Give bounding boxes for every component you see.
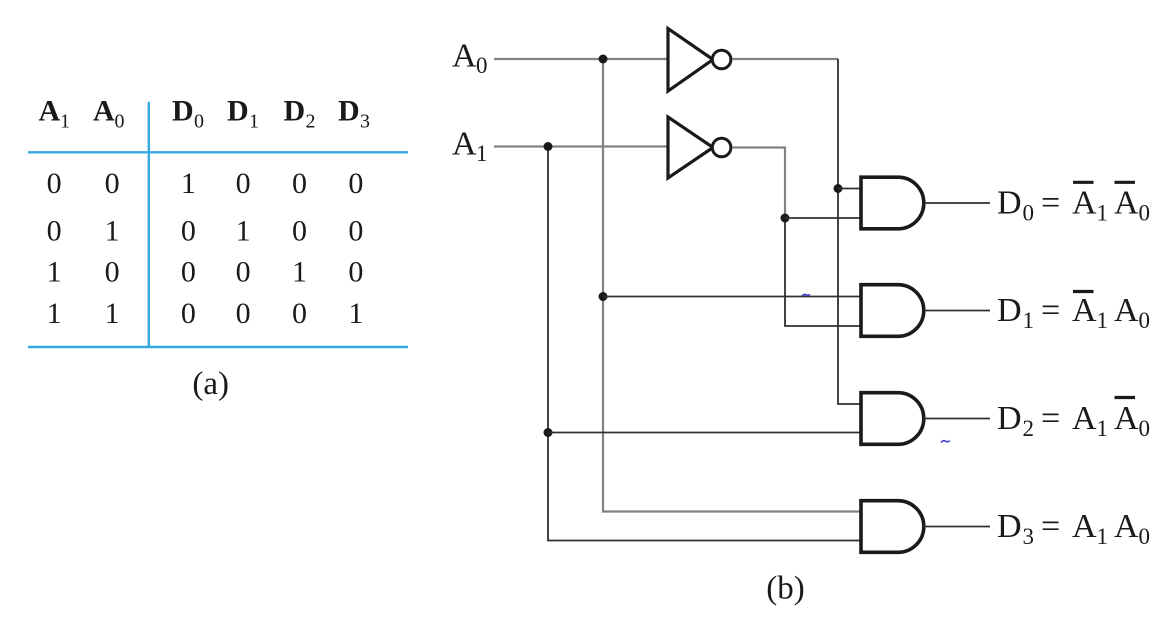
node on A1 at inverter tap: [544, 142, 553, 151]
svg-text:A: A: [1114, 292, 1139, 329]
node A0 to G2: [599, 292, 608, 301]
wire G2 output: [924, 310, 990, 312]
AND gate G3 (D2): [861, 393, 924, 445]
svg-text:2: 2: [1023, 416, 1035, 441]
svg-text:A: A: [1114, 508, 1139, 545]
wire A0-bar vertical: [838, 59, 862, 404]
label D1 = A1bar A0: [997, 292, 1150, 334]
svg-text:D: D: [997, 185, 1022, 222]
node A1-bar to G1: [781, 214, 790, 223]
AND gate G4 (D3): [861, 501, 924, 553]
svg-text:0: 0: [105, 256, 120, 289]
svg-text:1: 1: [236, 214, 251, 247]
svg-text:1: 1: [181, 167, 196, 200]
svg-text:3: 3: [360, 111, 370, 133]
table bottom rule: [28, 346, 408, 348]
AND gate G1 (D0): [861, 177, 924, 229]
label D0 = A1bar A0bar: [997, 182, 1150, 225]
svg-text:0: 0: [1023, 201, 1035, 226]
wire A1 input: [494, 145, 669, 147]
wire A0 vertical trunk: [603, 59, 862, 512]
svg-text:A: A: [1072, 292, 1097, 329]
table header D3: [338, 95, 370, 133]
svg-text:0: 0: [105, 167, 120, 200]
table vertical rule: [148, 102, 150, 348]
svg-text:0: 0: [292, 167, 307, 200]
input label A1: [452, 126, 488, 167]
table header D0: [172, 95, 204, 133]
svg-text:A: A: [1072, 400, 1097, 437]
svg-text:A: A: [39, 95, 61, 128]
table header D2: [284, 95, 316, 133]
svg-text:D: D: [997, 400, 1022, 437]
svg-text:0: 0: [47, 214, 62, 247]
svg-text:=: =: [1041, 400, 1060, 437]
wire G1 output: [924, 202, 990, 204]
node A0-bar to G1: [834, 184, 843, 193]
svg-text:A: A: [1072, 185, 1097, 222]
svg-text:1: 1: [105, 297, 120, 330]
wire U1 output (A0-bar): [732, 58, 838, 60]
input label A0: [452, 38, 488, 79]
svg-text:1: 1: [1097, 201, 1109, 226]
svg-text:0: 0: [181, 297, 196, 330]
svg-text:D: D: [227, 95, 249, 128]
wire U2 output (A1-bar): [732, 148, 785, 219]
svg-text:0: 0: [236, 297, 251, 330]
svg-text:1: 1: [348, 297, 363, 330]
wire G3 output: [923, 418, 990, 420]
wire A1-bar branch to G1 bottom input: [785, 217, 862, 219]
svg-text:A: A: [1072, 508, 1097, 545]
svg-text:(a): (a): [192, 366, 229, 402]
svg-text:A: A: [93, 95, 115, 128]
svg-text:2: 2: [306, 111, 316, 133]
wire A0 input: [494, 58, 669, 60]
svg-text:0: 0: [1139, 201, 1151, 226]
svg-text:0: 0: [292, 297, 307, 330]
svg-text:1: 1: [1097, 416, 1109, 441]
table row 3: 1 0 | 0 0 1 0: [47, 256, 364, 289]
table row 4: 1 1 | 0 0 0 1: [47, 297, 364, 330]
svg-text:0: 0: [476, 53, 488, 78]
svg-text:1: 1: [1097, 524, 1109, 549]
svg-text:0: 0: [348, 214, 363, 247]
node on A0 at inverter tap: [599, 55, 608, 64]
wire A1-bar vertical lower: [785, 218, 862, 326]
svg-text:1: 1: [47, 297, 62, 330]
svg-text:D: D: [997, 292, 1022, 329]
svg-text:A: A: [1114, 185, 1139, 222]
svg-text:0: 0: [1139, 308, 1151, 333]
svg-text:A: A: [452, 126, 477, 163]
table row 1: 0 0 | 1 0 0 0: [47, 167, 364, 200]
svg-text:1: 1: [60, 111, 70, 133]
svg-text:1: 1: [1097, 308, 1109, 333]
svg-text:1: 1: [47, 256, 62, 289]
svg-text:0: 0: [236, 167, 251, 200]
svg-text:0: 0: [181, 256, 196, 289]
svg-text:1: 1: [292, 256, 307, 289]
svg-text:1: 1: [105, 214, 120, 247]
svg-text:0: 0: [236, 256, 251, 289]
svg-text:1: 1: [476, 141, 488, 166]
inverter U2 (A1): [668, 117, 731, 178]
svg-text:A: A: [1114, 400, 1139, 437]
node A1 to G3: [544, 428, 553, 437]
svg-text:=: =: [1041, 508, 1060, 545]
svg-text:0: 0: [115, 111, 125, 133]
svg-text:=: =: [1041, 292, 1060, 329]
table header A1: [39, 95, 71, 133]
svg-text:0: 0: [194, 111, 204, 133]
svg-text:0: 0: [292, 214, 307, 247]
svg-text:(b): (b): [766, 571, 804, 607]
svg-text:=: =: [1041, 185, 1060, 222]
inverter U1 (A0): [668, 29, 731, 92]
wire A1 vertical trunk: [548, 147, 862, 541]
svg-text:0: 0: [348, 167, 363, 200]
svg-text:0: 0: [1139, 524, 1151, 549]
svg-text:0: 0: [348, 256, 363, 289]
table header A0: [93, 95, 125, 133]
scan artifact blue mark 1: [802, 294, 810, 296]
svg-text:D: D: [338, 95, 360, 128]
wire G4 output: [923, 526, 990, 528]
svg-text:1: 1: [249, 111, 259, 133]
table header D1: [227, 95, 259, 133]
wire A0 branch to G2 top input: [603, 296, 862, 298]
svg-text:D: D: [997, 508, 1022, 545]
svg-text:D: D: [284, 95, 306, 128]
scan artifact blue mark 2: [941, 441, 950, 443]
svg-text:A: A: [452, 38, 477, 75]
wire A0-bar branch to G1 top input: [838, 188, 862, 190]
label D3 = A1 A0: [997, 508, 1150, 549]
wire A1 branch to G3 bottom input: [548, 432, 862, 434]
svg-text:0: 0: [181, 214, 196, 247]
svg-text:1: 1: [1023, 308, 1035, 333]
svg-text:D: D: [172, 95, 194, 128]
AND gate G2 (D1): [861, 285, 924, 337]
table row 2: 0 1 | 0 1 0 0: [47, 214, 364, 247]
label D2 = A1 A0bar: [997, 398, 1150, 442]
svg-text:0: 0: [1139, 416, 1151, 441]
table top rule: [28, 151, 408, 153]
svg-text:0: 0: [47, 167, 62, 200]
svg-text:3: 3: [1023, 524, 1035, 549]
